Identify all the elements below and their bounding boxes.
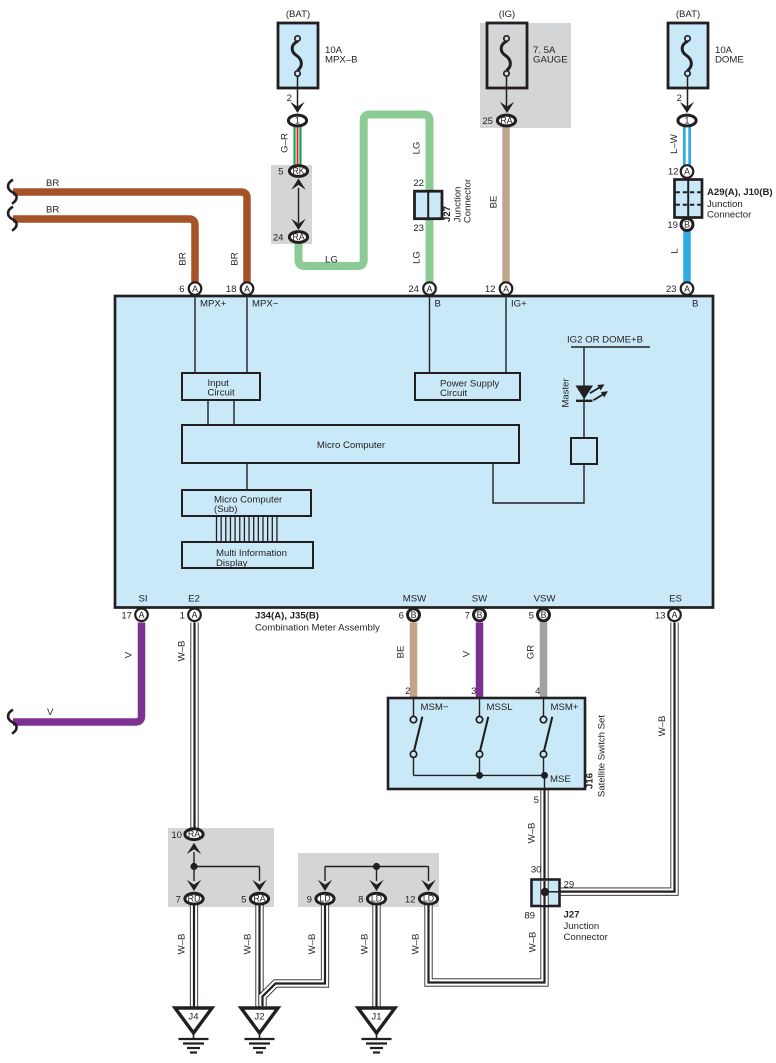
svg-text:22: 22: [413, 178, 424, 189]
svg-text:(Sub): (Sub): [214, 504, 237, 515]
svg-text:J27: J27: [564, 910, 580, 921]
svg-text:MSW: MSW: [403, 594, 427, 605]
svg-text:Micro Computer: Micro Computer: [317, 440, 386, 451]
svg-text:LG: LG: [325, 255, 338, 266]
svg-text:BR: BR: [46, 178, 59, 189]
svg-text:1: 1: [295, 116, 300, 126]
arrow down into RD7: [187, 880, 201, 891]
wire W-B (E2 down to RA): [190, 623, 198, 829]
svg-text:4: 4: [535, 686, 541, 697]
connector LD pin 9: [316, 893, 334, 904]
svg-text:MPX+: MPX+: [200, 299, 227, 310]
svg-text:MSSL: MSSL: [487, 702, 514, 713]
pin 24 A (B): [423, 282, 436, 295]
fuse 10A DOME: [668, 9, 708, 88]
break symbol BR lower: [8, 207, 17, 231]
connector RA pin 5: [250, 893, 268, 904]
svg-text:ES: ES: [669, 594, 682, 605]
arrow down into RA5: [252, 880, 266, 891]
svg-text:Connector: Connector: [707, 210, 752, 221]
connector RA pin 25: [497, 115, 515, 126]
svg-text:V: V: [462, 650, 473, 657]
svg-text:MPX–B: MPX–B: [325, 55, 358, 66]
svg-text:8: 8: [358, 895, 363, 906]
svg-text:A: A: [427, 284, 433, 294]
svg-text:W–B: W–B: [528, 932, 539, 953]
fuse lead dome: [687, 88, 689, 108]
svg-text:V: V: [47, 707, 54, 718]
svg-text:Connector: Connector: [564, 932, 609, 943]
svg-text:E2: E2: [188, 594, 200, 605]
svg-text:J1: J1: [371, 1012, 381, 1023]
node bar IG2: [571, 346, 650, 348]
MSE stub: [544, 775, 546, 789]
svg-text:RK: RK: [292, 166, 304, 176]
svg-text:12: 12: [668, 167, 679, 178]
svg-text:A: A: [684, 167, 690, 177]
svg-text:W–B: W–B: [411, 934, 422, 955]
svg-text:A: A: [192, 610, 198, 620]
svg-text:B: B: [692, 299, 698, 310]
wire W-B (RD to ground J4): [190, 905, 198, 1009]
drop to LD8: [376, 867, 378, 882]
svg-text:24: 24: [273, 233, 284, 244]
arrow into RA (gauge): [500, 102, 514, 113]
svg-text:SW: SW: [472, 594, 488, 605]
fuse 7.5A GAUGE: [487, 9, 527, 88]
switch MSM+ blade: [540, 698, 552, 775]
svg-text:13: 13: [655, 610, 666, 621]
power supply circuit box: [415, 373, 520, 400]
svg-text:12: 12: [485, 284, 496, 295]
svg-text:W–B: W–B: [657, 716, 668, 737]
svg-text:Satellite Switch Set: Satellite Switch Set: [597, 715, 608, 797]
wire BE (fuse RA to pin 12): [502, 126, 510, 283]
ground J1: [358, 1008, 395, 1053]
pin 6 A (MPX+): [189, 282, 202, 295]
arrow into connector 1 (mpx): [290, 102, 304, 113]
svg-text:5: 5: [529, 610, 534, 621]
svg-text:VSW: VSW: [534, 594, 557, 605]
fuse lead gauge: [506, 88, 508, 108]
micro computer box: [182, 425, 519, 463]
svg-text:W–B: W–B: [307, 934, 318, 955]
svg-text:DOME: DOME: [715, 55, 744, 66]
svg-text:A: A: [139, 610, 145, 620]
svg-text:BR: BR: [230, 252, 241, 265]
svg-text:25: 25: [482, 116, 493, 127]
pin 12 A (IG+): [500, 282, 513, 295]
svg-text:2: 2: [677, 93, 682, 104]
pin 17 A (SI): [135, 609, 148, 622]
svg-text:B: B: [477, 610, 483, 620]
connector LD pin 12: [419, 893, 437, 904]
svg-text:RA: RA: [500, 116, 512, 126]
svg-text:GR: GR: [526, 645, 537, 659]
wire BR upper (to pin 18): [13, 192, 247, 282]
svg-text:G–R: G–R: [280, 133, 291, 153]
stub pin 24: [429, 298, 431, 375]
svg-text:IG2 OR DOME+B: IG2 OR DOME+B: [567, 335, 643, 346]
svg-text:MSM−: MSM−: [421, 702, 449, 713]
connector RA pin 10: [185, 829, 203, 840]
ground J2: [241, 1008, 278, 1053]
svg-text:W–B: W–B: [243, 934, 254, 955]
svg-text:(BAT): (BAT): [286, 9, 310, 20]
svg-text:LG: LG: [412, 251, 423, 264]
svg-text:Junction: Junction: [707, 199, 743, 210]
svg-text:LD: LD: [371, 894, 382, 904]
bus LD group: [325, 866, 429, 868]
arrow down to RA: [291, 219, 305, 230]
svg-text:W–B: W–B: [177, 934, 188, 955]
svg-text:A: A: [244, 284, 250, 294]
svg-text:J2: J2: [254, 1012, 264, 1023]
wire W-B (ES to J27 pin 29): [560, 623, 675, 892]
bus hatch sub-display: [217, 516, 277, 542]
satellite switch set block J16: [388, 698, 585, 789]
led wire: [583, 347, 585, 438]
svg-text:89: 89: [524, 911, 535, 922]
arrow down into LD8: [369, 880, 383, 891]
pin 5 B (VSW): [538, 609, 550, 621]
break symbol V: [8, 710, 17, 734]
svg-text:J34(A), J35(B): J34(A), J35(B): [255, 611, 319, 622]
pin 23 A (B): [681, 282, 694, 295]
wire LG (RA to J27 to pin 24): [299, 115, 430, 283]
wire BE (MSW to switch pin 2): [410, 623, 418, 699]
svg-text:LG: LG: [412, 142, 423, 155]
svg-text:B: B: [435, 299, 441, 310]
connector RA pin 24: [289, 232, 307, 243]
svg-text:A: A: [192, 284, 198, 294]
svg-text:6: 6: [179, 284, 184, 295]
switch MSSL blade: [476, 698, 488, 775]
svg-text:W–B: W–B: [527, 823, 538, 844]
svg-text:A: A: [503, 284, 509, 294]
svg-text:2: 2: [287, 93, 292, 104]
connector 1 (mpx): [288, 115, 306, 126]
svg-text:A: A: [672, 610, 678, 620]
svg-text:BE: BE: [396, 646, 407, 659]
stub pin 18: [246, 298, 248, 375]
svg-text:10: 10: [171, 830, 182, 841]
svg-text:L: L: [670, 248, 681, 254]
svg-text:W–B: W–B: [177, 641, 188, 662]
svg-text:1: 1: [180, 610, 185, 621]
svg-text:24: 24: [408, 284, 419, 295]
input circuit box: [182, 373, 260, 400]
svg-text:RA: RA: [292, 232, 304, 242]
svg-text:V: V: [124, 651, 135, 658]
pin 7 B (SW): [474, 609, 486, 621]
arrow up to RK: [291, 179, 305, 190]
svg-text:5: 5: [241, 895, 246, 906]
svg-text:Display: Display: [216, 558, 248, 569]
svg-text:5: 5: [278, 167, 283, 178]
svg-text:A: A: [684, 284, 690, 294]
combination meter assembly block: [115, 296, 713, 608]
svg-text:BR: BR: [46, 205, 59, 216]
svg-text:J27: J27: [442, 206, 453, 222]
svg-text:29: 29: [564, 880, 575, 891]
svg-text:12: 12: [405, 895, 416, 906]
svg-text:J4: J4: [188, 1012, 199, 1023]
svg-text:MSM+: MSM+: [551, 702, 579, 713]
svg-text:1: 1: [685, 116, 690, 126]
svg-text:2: 2: [405, 686, 410, 697]
link micro to sub: [246, 463, 248, 490]
svg-text:LD: LD: [319, 894, 330, 904]
svg-text:6: 6: [399, 610, 404, 621]
connector shade (LD/LD/LD): [298, 853, 439, 907]
wire W-B (12 LD to J27 pin 89): [429, 905, 545, 983]
arrow down into LD9: [318, 880, 332, 891]
link input to micro L: [207, 400, 209, 425]
link RA10 to bus: [193, 852, 195, 867]
multi information display box: [182, 542, 313, 568]
wire V (SI to left): [13, 623, 142, 723]
pin 18 A (MPX-): [241, 282, 254, 295]
junction dot LD group: [373, 863, 380, 870]
drop to RD7: [193, 867, 195, 882]
junction dot RA10: [190, 863, 197, 870]
svg-text:GAUGE: GAUGE: [533, 55, 568, 66]
svg-text:Circuit: Circuit: [208, 388, 236, 399]
drop to LD12: [428, 867, 430, 882]
wire W-B (8 LD to ground J1): [372, 905, 380, 1009]
wire W-B (RA to ground J2): [255, 905, 263, 1009]
wire W-B through J27: [540, 881, 548, 905]
junction dot MSE: [541, 772, 548, 779]
svg-text:9: 9: [307, 895, 312, 906]
junction dot MSSL: [476, 772, 483, 779]
svg-text:IG+: IG+: [511, 299, 527, 310]
svg-text:7: 7: [176, 895, 181, 906]
connector LD pin 8: [367, 893, 385, 904]
pin 19 B (junction bottom): [681, 219, 693, 231]
junction connector A29/J10: [675, 180, 703, 218]
svg-text:18: 18: [226, 284, 237, 295]
svg-text:BE: BE: [489, 196, 500, 209]
connector shade (RA/RD/RA): [168, 828, 274, 907]
link input to micro R: [233, 400, 235, 425]
fuse 10A MPX-B: [278, 9, 318, 88]
break symbol BR upper: [8, 180, 17, 204]
wire V (SW to switch pin 3): [476, 623, 484, 699]
svg-text:17: 17: [121, 610, 132, 621]
svg-text:RA: RA: [188, 829, 200, 839]
switch common bus: [414, 774, 545, 776]
svg-text:(BAT): (BAT): [676, 9, 700, 20]
pin 13 A (ES): [668, 609, 681, 622]
svg-text:B: B: [541, 610, 547, 620]
wire W-B (MSE pin5 to J27 pin30): [540, 789, 548, 880]
svg-text:Master: Master: [561, 378, 572, 408]
relay block shade (RK/RA): [271, 165, 312, 244]
svg-text:3: 3: [471, 686, 476, 697]
stub pin 12: [505, 298, 507, 375]
svg-text:Circuit: Circuit: [440, 388, 468, 399]
svg-text:J16: J16: [585, 773, 596, 789]
svg-text:30: 30: [531, 865, 542, 876]
svg-text:BR: BR: [178, 252, 189, 265]
transistor box: [571, 438, 597, 464]
svg-text:7: 7: [465, 610, 470, 621]
connector 1 (dome): [678, 115, 696, 126]
drop to RA5: [259, 867, 261, 882]
junction connector J27 (top): [415, 191, 443, 219]
fuse lead mpx: [297, 88, 299, 108]
drop to LD9: [324, 867, 326, 882]
IG fuse block shade: [480, 23, 571, 128]
svg-text:RA: RA: [253, 894, 265, 904]
wire BR lower (to pin 6): [13, 219, 195, 282]
svg-text:19: 19: [667, 220, 678, 231]
wire L (19B to pin 23): [683, 231, 691, 282]
micro computer sub box: [182, 490, 311, 516]
junction connector J27 (bottom): [532, 880, 560, 907]
svg-text:A29(A), J10(B): A29(A), J10(B): [707, 187, 773, 198]
svg-text:RD: RD: [188, 894, 201, 904]
svg-text:Connector: Connector: [463, 178, 474, 223]
switch MSM- blade: [410, 698, 422, 775]
led D1 (master indicator): [576, 384, 609, 401]
wire G-R (fuse to RK): [294, 127, 302, 166]
svg-text:B: B: [411, 610, 417, 620]
J27 internal link: [546, 891, 560, 893]
arrow up into RA10: [187, 843, 201, 854]
svg-text:5: 5: [534, 795, 539, 806]
relay internal link: [298, 188, 300, 223]
arrow into connector 1 (dome): [680, 102, 694, 113]
connector RK pin 5: [289, 166, 307, 177]
connector RD pin 7: [185, 893, 203, 904]
bus RA10: [194, 866, 260, 868]
pin 12 A (junction top): [681, 165, 694, 178]
svg-text:23: 23: [413, 223, 424, 234]
svg-text:B: B: [684, 220, 690, 230]
svg-text:SI: SI: [138, 594, 147, 605]
wire GR (VSW to switch pin 4): [540, 615, 548, 700]
pin 6 B (MSW): [408, 609, 420, 621]
pin 1 A (E2): [188, 609, 201, 622]
arrow down into LD12: [421, 880, 435, 891]
wire W-B (9 LD to ground J2): [263, 905, 326, 1006]
svg-text:23: 23: [666, 284, 677, 295]
junction dot J27: [541, 888, 549, 896]
svg-text:L–W: L–W: [669, 133, 680, 154]
svg-text:MSE: MSE: [550, 774, 571, 785]
svg-text:(IG): (IG): [499, 9, 516, 20]
stub pin 6: [194, 298, 196, 375]
wire L-W (dome fuse to 12A): [683, 127, 691, 165]
link micro to transistor: [493, 463, 584, 503]
svg-text:Junction: Junction: [564, 921, 600, 932]
ground J4: [175, 1008, 212, 1053]
svg-text:Combination Meter Assembly: Combination Meter Assembly: [255, 623, 380, 634]
svg-text:LD: LD: [423, 894, 434, 904]
svg-text:W–B: W–B: [360, 934, 371, 955]
svg-text:MPX−: MPX−: [252, 299, 279, 310]
